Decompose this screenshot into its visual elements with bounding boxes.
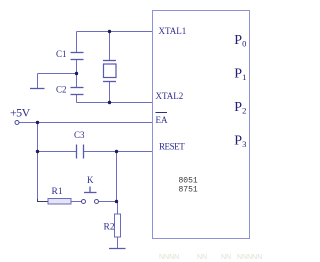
svg-text:K: K (87, 175, 94, 185)
svg-text:P3: P3 (234, 133, 246, 149)
svg-text:8051: 8051 (179, 177, 198, 186)
svg-text:NNNN: NNNN (159, 254, 179, 261)
svg-text:P1: P1 (234, 66, 246, 82)
svg-text:EA: EA (156, 115, 168, 125)
svg-text:NNNNN: NNNNN (237, 254, 262, 261)
svg-text:+5V: +5V (10, 106, 31, 120)
svg-text:8751: 8751 (179, 186, 198, 195)
svg-text:C1: C1 (56, 49, 67, 59)
svg-text:P0: P0 (234, 33, 246, 49)
svg-text:C3: C3 (74, 130, 85, 140)
svg-text:NN: NN (221, 254, 231, 261)
svg-text:RESET: RESET (159, 142, 185, 152)
svg-text:XTAL1: XTAL1 (159, 26, 187, 36)
svg-text:P2: P2 (234, 100, 246, 116)
svg-text:R1: R1 (52, 187, 63, 197)
svg-text:NN: NN (197, 254, 207, 261)
svg-text:R2: R2 (104, 223, 115, 233)
svg-text:C2: C2 (56, 85, 67, 95)
svg-text:XTAL2: XTAL2 (156, 91, 184, 101)
